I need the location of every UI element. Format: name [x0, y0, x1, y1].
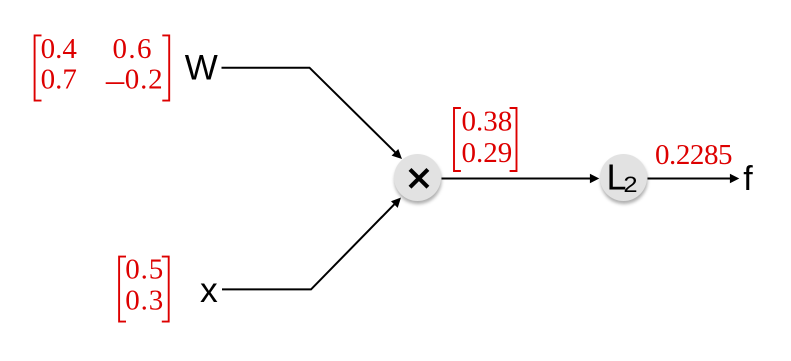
svg-text:0.3: 0.3 — [125, 285, 164, 317]
svg-text:W: W — [185, 49, 218, 88]
wire W to multiply node — [222, 68, 396, 153]
svg-text:0.2: 0.2 — [125, 63, 164, 95]
arrowhead W to multiply node — [392, 149, 402, 159]
wire multiply node to L2 node — [442, 178, 591, 180]
multiply node cross symbol — [410, 169, 428, 187]
L2 node circle — [600, 154, 647, 201]
svg-text:0.29: 0.29 — [462, 137, 513, 169]
svg-text:0.5: 0.5 — [125, 254, 164, 286]
intermediate value vector right bracket — [510, 108, 517, 171]
svg-text:f: f — [743, 160, 753, 198]
svg-text:0.2285: 0.2285 — [655, 139, 732, 171]
svg-text:0.7: 0.7 — [41, 63, 77, 95]
svg-text:2: 2 — [623, 173, 637, 198]
intermediate value vector left bracket — [454, 108, 461, 171]
wire x to multiply node — [222, 204, 394, 289]
svg-text:0.6: 0.6 — [113, 33, 153, 65]
arrowhead into L2 node — [590, 174, 599, 183]
vector x right bracket — [162, 257, 169, 322]
vector x left bracket — [119, 257, 126, 322]
L2 node shadow — [600, 157, 647, 204]
multiply node shadow — [394, 157, 441, 204]
svg-text:0.38: 0.38 — [462, 106, 513, 138]
matrix W left bracket — [35, 35, 42, 100]
svg-text:x: x — [200, 270, 218, 310]
arrowhead to f — [730, 174, 739, 183]
matrix W right bracket — [162, 35, 169, 100]
matrix W entry -0.2 minus sign — [106, 82, 125, 84]
arrowhead x to multiply node — [391, 198, 401, 208]
wire L2 node to f — [648, 178, 731, 180]
svg-text:0.4: 0.4 — [41, 33, 78, 65]
multiply node circle — [394, 154, 441, 201]
